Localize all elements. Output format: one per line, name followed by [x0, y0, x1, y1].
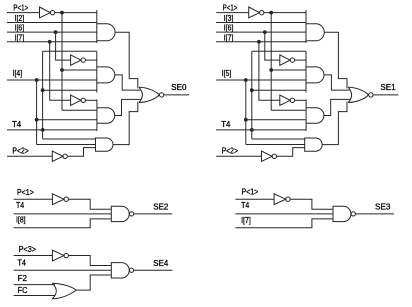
wire T4 to gate2 top: [43, 50, 97, 52]
wire I[6] (right): [216, 31, 306, 33]
inverter C1: [52, 194, 64, 205]
wire P1n to gate2 (right): [271, 69, 306, 71]
wire I[5]: [216, 79, 306, 81]
junction P1n-g2 (right): [269, 68, 273, 72]
wire G2 out: [115, 75, 141, 90]
svg-text:I[8]: I[8]: [16, 215, 26, 224]
wire I[6]: [7, 31, 97, 33]
junction I4: [35, 78, 39, 82]
inverter A3: [71, 95, 81, 105]
and gate G4: [96, 138, 114, 151]
wire I4 to gate4: [37, 144, 96, 146]
nand gate D1: [111, 206, 129, 221]
wire SE3 out: [355, 213, 394, 215]
wire A3 out: [85, 99, 97, 101]
svg-text:I[7]: I[7]: [241, 216, 251, 225]
svg-text:T4: T4: [12, 120, 22, 129]
wire I[7] (right): [216, 41, 306, 43]
wire E1 out: [290, 199, 333, 209]
wire I5 to gate3: [246, 119, 306, 121]
wire T4 to gate2 top (right): [252, 50, 306, 52]
and gate H4: [305, 138, 323, 151]
junction T4b: [41, 88, 45, 92]
junction I5: [244, 78, 248, 82]
junction P1n-g2: [60, 68, 64, 72]
wire SE2 out: [134, 213, 173, 215]
wire P1n column (right): [270, 13, 272, 111]
wire P<2>: [7, 155, 52, 157]
svg-text:SE2: SE2: [153, 203, 169, 212]
wire P<1> (se2): [14, 198, 53, 200]
wire I5 column: [245, 80, 247, 145]
wire T4: [7, 129, 97, 131]
inverter F1: [52, 250, 64, 261]
svg-text:SE3: SE3: [375, 203, 391, 212]
junction T4: [41, 128, 45, 132]
wire P1n to gate2: [62, 69, 97, 71]
svg-text:P<1>: P<1>: [223, 4, 238, 13]
svg-text:P<1>: P<1>: [13, 4, 28, 13]
wire B3 out: [295, 99, 307, 101]
wire P<2> (right): [216, 155, 261, 157]
wire T4 column: [42, 51, 44, 139]
wire I[4]: [7, 79, 97, 81]
wire T4 (se4): [14, 269, 112, 271]
wire B2 out: [295, 59, 306, 61]
wire P1n to gate3 (right): [271, 109, 306, 111]
svg-text:I[7]: I[7]: [15, 33, 25, 42]
nor gate N2: [348, 87, 351, 102]
svg-text:SE1: SE1: [380, 83, 396, 92]
wire T4 to gate2 bottom (right): [252, 89, 306, 91]
svg-text:FC: FC: [18, 286, 28, 295]
inverter B2: [280, 55, 290, 65]
svg-text:T4: T4: [221, 120, 231, 129]
wire P<3>: [14, 255, 53, 257]
wire G3 out: [115, 99, 141, 115]
wire I4 to gate3: [37, 119, 97, 121]
wire I5 to gate4: [246, 144, 305, 146]
inverter B4: [262, 151, 273, 161]
and gate G1: [96, 10, 98, 43]
inverter A1: [40, 7, 51, 18]
wire T4 column (right): [251, 51, 253, 139]
wire B1 out: [264, 12, 306, 14]
wire P<1> (se3): [235, 198, 274, 200]
junction I4b: [35, 118, 39, 122]
inverter B1: [249, 7, 260, 18]
svg-text:I[7]: I[7]: [224, 33, 234, 42]
wire H2 out: [324, 75, 350, 90]
svg-text:P<1>: P<1>: [17, 188, 34, 197]
and gate H2: [305, 51, 307, 92]
wire I7 column (right): [259, 42, 280, 101]
wire I[3]: [216, 22, 306, 24]
svg-text:T4: T4: [18, 259, 27, 268]
junction I6 (right): [263, 30, 267, 34]
inverter E1: [274, 194, 286, 205]
wire H1 out: [324, 32, 347, 88]
wire FC: [14, 294, 55, 296]
wire G4 out: [113, 102, 138, 145]
svg-text:I[5]: I[5]: [222, 69, 232, 78]
wire T4 (se3): [235, 213, 333, 215]
wire F1 out: [68, 256, 111, 266]
svg-text:I[2]: I[2]: [15, 14, 25, 23]
svg-text:F2: F2: [18, 274, 28, 283]
wire T4 (right): [216, 129, 306, 131]
junction I7 (right): [257, 40, 261, 44]
junction I7: [48, 40, 52, 44]
svg-text:P<1>: P<1>: [242, 188, 259, 197]
inverter A4: [52, 151, 63, 161]
wire H4 out: [322, 102, 347, 145]
and gate H3: [305, 99, 307, 130]
wire T4 to gate4 (right): [252, 138, 305, 140]
or gate O1: [52, 283, 56, 299]
wire SE4 out: [134, 269, 173, 271]
wire SE1 out: [373, 94, 398, 96]
wire C1 out: [68, 199, 111, 209]
inverter B3: [280, 95, 290, 105]
wire I[8]: [14, 219, 112, 228]
svg-text:I[6]: I[6]: [224, 24, 234, 33]
junction P1n (right): [269, 11, 273, 15]
wire P1n to gate3: [62, 109, 97, 111]
wire T4 to gate4: [43, 138, 96, 140]
nand gate D3: [111, 263, 129, 278]
svg-text:T4: T4: [241, 201, 250, 210]
wire T4 to gate2 bottom: [43, 89, 97, 91]
svg-text:P<2>: P<2>: [12, 147, 29, 156]
svg-text:I[3]: I[3]: [224, 14, 234, 23]
wire A2 out: [85, 59, 96, 61]
wire I4 column: [36, 80, 38, 145]
svg-text:SE4: SE4: [153, 259, 169, 268]
wire A1 out: [55, 12, 97, 14]
wire O1 out: [76, 275, 111, 290]
wire B4 out: [277, 148, 305, 157]
wire T4 (se2): [14, 213, 112, 215]
wire I6 column: [56, 32, 71, 60]
wire I7 column: [50, 42, 71, 101]
wire I6 column (right): [265, 32, 280, 60]
wire SE0 out: [164, 94, 189, 96]
wire H3 out: [324, 99, 350, 115]
svg-text:P<3>: P<3>: [19, 245, 37, 254]
wire I[7]: [7, 41, 97, 43]
svg-text:T4: T4: [16, 201, 25, 210]
junction T4 (right): [250, 128, 254, 132]
and gate G3: [96, 99, 98, 130]
nand gate D2: [333, 206, 351, 221]
wire F2: [14, 284, 55, 286]
and gate G2: [96, 51, 98, 92]
wire A4 out: [67, 148, 95, 157]
svg-text:SE0: SE0: [171, 83, 187, 92]
wire P1n column: [61, 13, 63, 111]
nor gate N1: [139, 87, 142, 102]
wire P<1> (right): [216, 12, 249, 14]
svg-text:I[6]: I[6]: [15, 24, 25, 33]
junction I6: [54, 30, 58, 34]
wire G1 out: [115, 32, 138, 88]
wire P<1>: [7, 12, 40, 14]
wire I[7] (se3): [235, 219, 333, 228]
svg-text:P<2>: P<2>: [222, 147, 239, 156]
and gate H1: [305, 10, 307, 43]
svg-text:I[4]: I[4]: [13, 69, 23, 78]
junction P1n: [60, 11, 64, 15]
inverter A2: [71, 55, 81, 65]
junction T4b (right): [250, 88, 254, 92]
junction I5b: [244, 118, 248, 122]
wire I[2]: [7, 22, 97, 24]
